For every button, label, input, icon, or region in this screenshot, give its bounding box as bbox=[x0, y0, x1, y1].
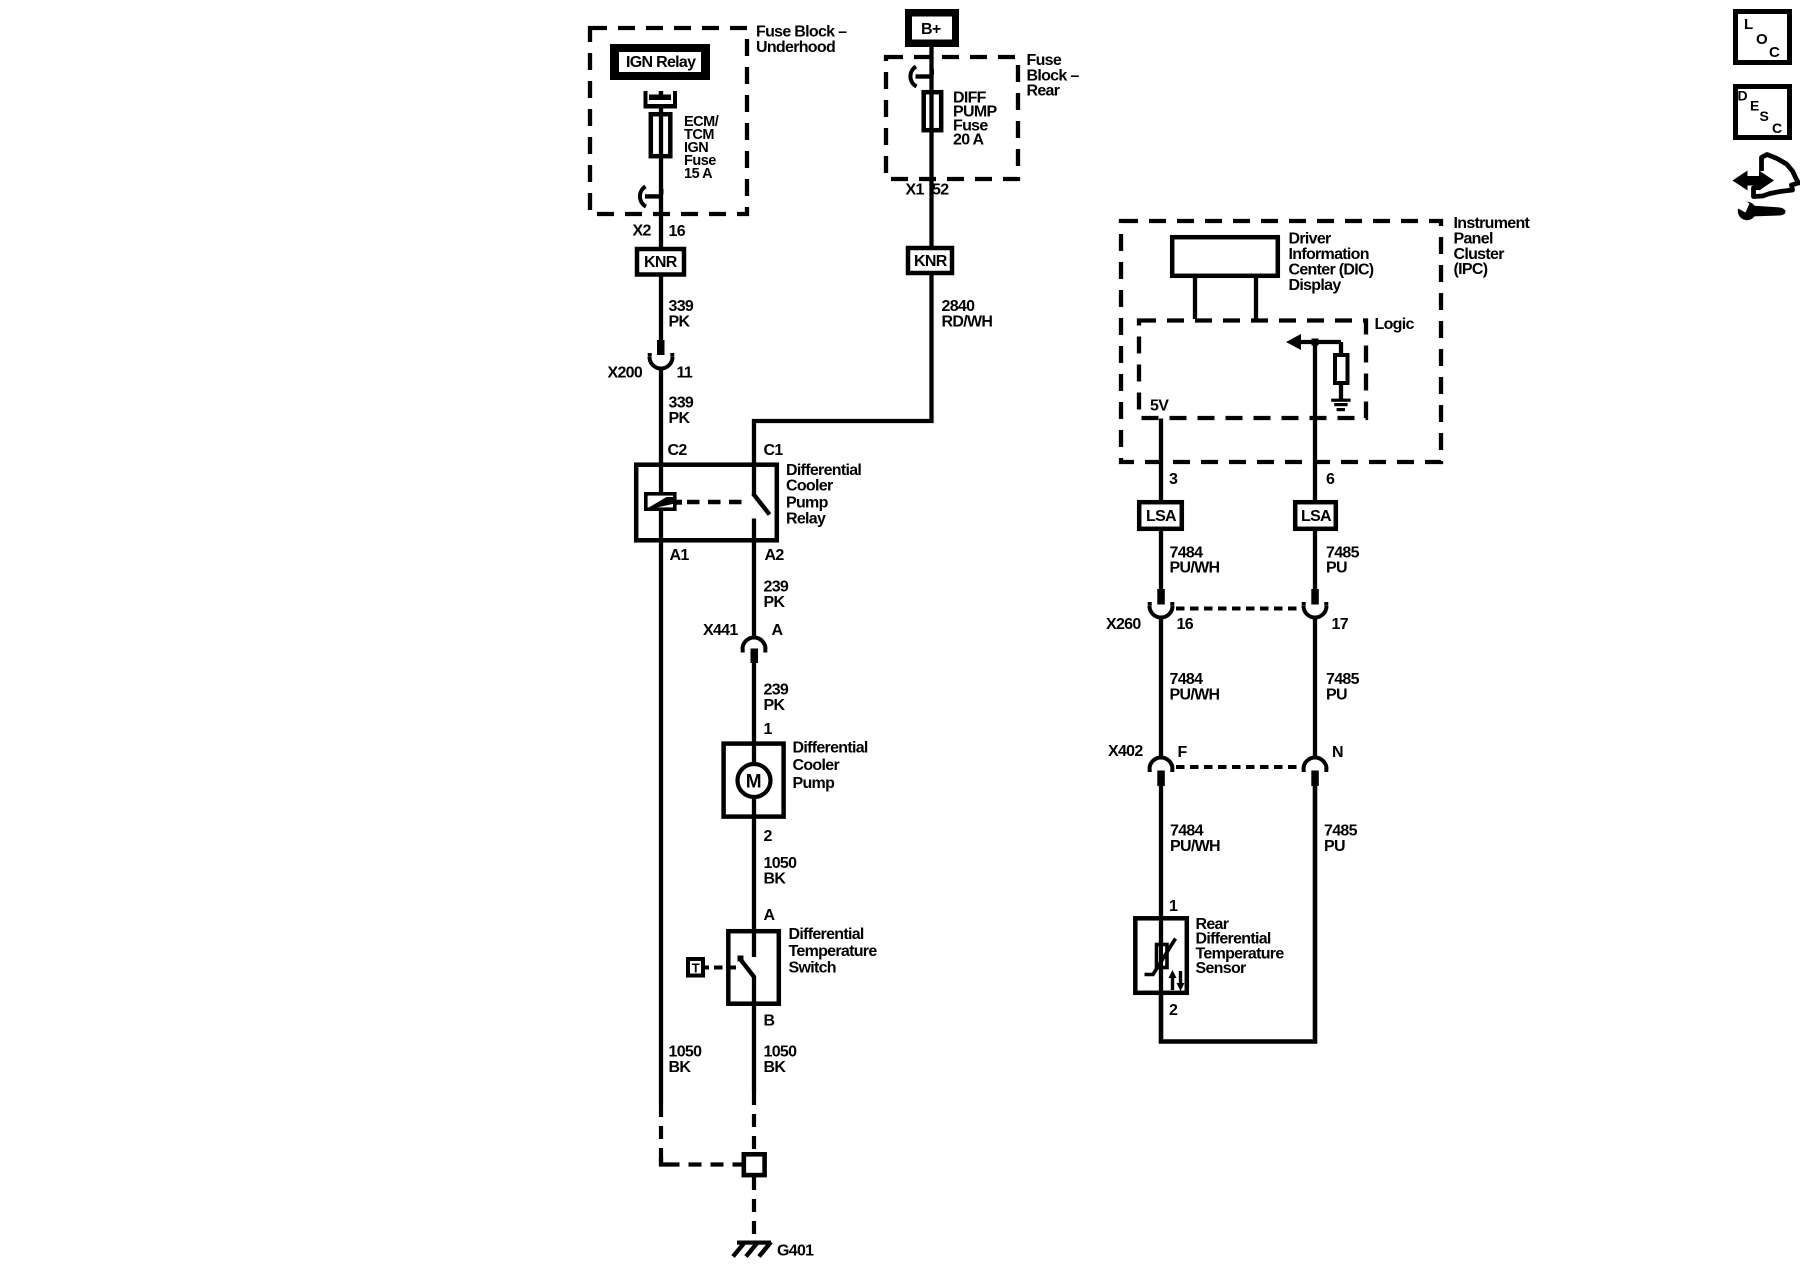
svg-text:D: D bbox=[1738, 88, 1748, 104]
fuse output terminal left bbox=[640, 187, 664, 207]
svg-text:Pump: Pump bbox=[793, 775, 836, 792]
svg-text:PU: PU bbox=[1326, 686, 1347, 703]
svg-text:A2: A2 bbox=[765, 547, 785, 564]
svg-text:1050: 1050 bbox=[764, 855, 798, 872]
svg-text:1: 1 bbox=[1169, 898, 1178, 915]
svg-text:Information: Information bbox=[1289, 246, 1369, 263]
svg-text:KNR: KNR bbox=[644, 254, 678, 271]
wire 1050 BK pump to switch bbox=[752, 819, 756, 931]
svg-text:F: F bbox=[1178, 744, 1188, 761]
wire 7485 PU upper bbox=[1313, 528, 1317, 590]
motor M bbox=[738, 764, 771, 797]
icon DESC box bbox=[1736, 87, 1790, 138]
switch contact arm bbox=[739, 958, 755, 978]
svg-text:E: E bbox=[1750, 98, 1759, 114]
svg-text:2: 2 bbox=[1169, 1002, 1178, 1019]
svg-text:16: 16 bbox=[669, 223, 686, 240]
svg-text:N: N bbox=[1332, 744, 1343, 761]
svg-text:Rear: Rear bbox=[1027, 83, 1060, 100]
svg-text:Differential: Differential bbox=[786, 462, 861, 479]
icon adjustable component bbox=[1733, 155, 1799, 221]
rear differential temperature sensor box bbox=[1135, 918, 1187, 993]
svg-text:G401: G401 bbox=[777, 1243, 814, 1260]
wire 7484 PU/WH mid bbox=[1159, 617, 1163, 758]
svg-text:Cooler: Cooler bbox=[786, 478, 833, 495]
svg-text:2: 2 bbox=[764, 828, 773, 845]
svg-text:Driver: Driver bbox=[1289, 231, 1332, 248]
wire 5V output bbox=[1159, 419, 1163, 503]
svg-text:17: 17 bbox=[1332, 616, 1349, 633]
svg-text:Logic: Logic bbox=[1375, 316, 1415, 333]
svg-text:239: 239 bbox=[764, 579, 789, 596]
differential temperature switch box bbox=[728, 931, 779, 1004]
instrument panel cluster dashed box bbox=[1121, 221, 1441, 462]
wire 239 PK to pump bbox=[752, 663, 756, 743]
wire 1050 BK to ground bbox=[752, 1006, 756, 1092]
svg-text:20 A: 20 A bbox=[953, 131, 985, 148]
svg-text:Cooler: Cooler bbox=[793, 757, 840, 774]
temperature actuator T bbox=[688, 959, 703, 976]
fuse block underhood dashed box bbox=[590, 28, 747, 214]
wire 7484 PU/WH lower bbox=[1159, 786, 1163, 918]
svg-text:1050: 1050 bbox=[764, 1044, 798, 1061]
svg-text:PU/WH: PU/WH bbox=[1170, 838, 1220, 855]
svg-text:C: C bbox=[1769, 44, 1780, 61]
svg-text:M: M bbox=[746, 772, 762, 793]
svg-text:IGN Relay: IGN Relay bbox=[626, 54, 696, 71]
logic arrow bbox=[1286, 334, 1301, 350]
svg-text:S: S bbox=[1760, 108, 1769, 124]
svg-text:X260: X260 bbox=[1106, 616, 1141, 633]
svg-text:16: 16 bbox=[1177, 616, 1194, 633]
wire 2840 RD/WH bbox=[754, 273, 932, 464]
thermistor symbol bbox=[1157, 945, 1168, 968]
differential cooler pump box bbox=[724, 744, 784, 817]
dashed ground wire left bbox=[661, 1104, 742, 1165]
IGN Relay label box bbox=[610, 44, 710, 80]
svg-text:15 A: 15 A bbox=[684, 166, 713, 182]
svg-text:C: C bbox=[1772, 120, 1782, 136]
svg-text:X1: X1 bbox=[906, 182, 925, 199]
fuse output terminal rear bbox=[910, 67, 934, 87]
svg-text:BK: BK bbox=[669, 1059, 692, 1076]
wire ign fuse feed bbox=[659, 108, 663, 247]
wire B+ feed bbox=[929, 47, 933, 248]
svg-text:X2: X2 bbox=[633, 223, 652, 240]
svg-text:1050: 1050 bbox=[669, 1044, 703, 1061]
relay socket terminal bbox=[644, 91, 678, 109]
svg-text:BK: BK bbox=[764, 1059, 787, 1076]
svg-text:O: O bbox=[1756, 31, 1768, 48]
relay dashed actuator link bbox=[677, 500, 683, 505]
wire 7484 PU/WH upper bbox=[1159, 528, 1163, 590]
svg-text:Fuse Block –: Fuse Block – bbox=[756, 24, 847, 41]
connector LSA left bbox=[1139, 502, 1182, 529]
svg-text:PU: PU bbox=[1324, 838, 1345, 855]
svg-text:Pump: Pump bbox=[786, 494, 829, 511]
svg-text:Temperature: Temperature bbox=[789, 943, 878, 960]
svg-text:2840: 2840 bbox=[942, 298, 976, 315]
svg-text:T: T bbox=[692, 961, 700, 976]
svg-text:11: 11 bbox=[677, 365, 693, 382]
fuse block rear dashed box bbox=[886, 57, 1018, 179]
svg-text:A: A bbox=[764, 907, 776, 924]
svg-text:3: 3 bbox=[1169, 471, 1178, 488]
svg-text:1: 1 bbox=[764, 721, 773, 738]
svg-text:PK: PK bbox=[669, 410, 691, 427]
svg-text:PK: PK bbox=[764, 594, 786, 611]
fuse DIFF PUMP 20A bbox=[924, 92, 942, 130]
ground G401 bbox=[733, 1241, 771, 1257]
relay switch contact bbox=[752, 462, 756, 495]
splice junction box bbox=[744, 1154, 765, 1175]
svg-text:C2: C2 bbox=[668, 442, 688, 459]
svg-text:LSA: LSA bbox=[1301, 508, 1332, 525]
svg-text:Relay: Relay bbox=[786, 510, 826, 527]
svg-text:X402: X402 bbox=[1108, 743, 1143, 760]
svg-text:Display: Display bbox=[1289, 277, 1342, 294]
junction node bbox=[1312, 339, 1319, 346]
svg-text:6: 6 bbox=[1326, 471, 1335, 488]
svg-text:339: 339 bbox=[669, 298, 694, 315]
relay coil bbox=[659, 462, 663, 494]
svg-text:Underhood: Underhood bbox=[756, 39, 835, 56]
svg-text:(IPC): (IPC) bbox=[1454, 261, 1488, 278]
fuse ECM/TCM IGN 15A bbox=[651, 114, 671, 156]
svg-text:52: 52 bbox=[932, 182, 949, 199]
svg-text:X200: X200 bbox=[608, 365, 643, 382]
svg-text:C1: C1 bbox=[764, 442, 784, 459]
svg-text:BK: BK bbox=[764, 871, 787, 888]
icon LOC box bbox=[1736, 12, 1790, 63]
svg-text:PU: PU bbox=[1326, 560, 1347, 577]
svg-text:339: 339 bbox=[669, 395, 694, 412]
logic ground bbox=[1331, 399, 1350, 412]
wire A1 to ground path bbox=[659, 540, 663, 1104]
logic dashed box bbox=[1139, 321, 1366, 419]
wire logic signal bbox=[1313, 342, 1317, 502]
dashed connector link X402 bbox=[1176, 765, 1301, 769]
svg-text:X441: X441 bbox=[703, 622, 738, 639]
dashed connector link X260 bbox=[1176, 607, 1302, 611]
svg-text:PU/WH: PU/WH bbox=[1170, 560, 1220, 577]
wire sensor return loop bbox=[1161, 786, 1315, 1042]
wire 339 PK lower bbox=[659, 368, 663, 464]
svg-text:B+: B+ bbox=[921, 21, 941, 38]
svg-text:Switch: Switch bbox=[789, 959, 836, 976]
svg-text:Sensor: Sensor bbox=[1196, 960, 1247, 977]
inline connector X200 pin 11 bbox=[650, 340, 673, 369]
svg-text:239: 239 bbox=[764, 682, 789, 699]
power node B+ bbox=[905, 9, 959, 47]
svg-text:KNR: KNR bbox=[914, 253, 948, 270]
svg-text:LSA: LSA bbox=[1146, 508, 1177, 525]
svg-text:PK: PK bbox=[764, 697, 786, 714]
svg-text:5V: 5V bbox=[1150, 398, 1169, 415]
wire 339 PK upper bbox=[659, 274, 663, 341]
DIC legs bbox=[1193, 276, 1197, 319]
sensor arrows bbox=[1169, 970, 1185, 991]
svg-text:L: L bbox=[1744, 16, 1753, 33]
DIC display box bbox=[1172, 237, 1278, 276]
svg-text:B: B bbox=[764, 1013, 775, 1030]
svg-text:PU/WH: PU/WH bbox=[1170, 686, 1220, 703]
svg-text:7485: 7485 bbox=[1324, 822, 1358, 839]
svg-text:Differential: Differential bbox=[793, 740, 868, 757]
svg-text:RD/WH: RD/WH bbox=[942, 314, 993, 331]
connector KNR left bbox=[637, 249, 684, 275]
resistor in logic bbox=[1339, 342, 1343, 355]
wire 239 PK from A2 bbox=[752, 540, 756, 638]
dashed wire to ground bbox=[752, 1177, 756, 1240]
wire 7485 PU mid bbox=[1313, 617, 1317, 758]
inline connector X260 pin 16 bbox=[1150, 589, 1173, 618]
svg-text:Differential: Differential bbox=[789, 926, 864, 943]
connector LSA right bbox=[1295, 502, 1336, 529]
svg-text:PK: PK bbox=[669, 314, 691, 331]
svg-text:Center (DIC): Center (DIC) bbox=[1289, 262, 1374, 279]
svg-text:A: A bbox=[772, 622, 784, 639]
svg-text:7484: 7484 bbox=[1170, 822, 1204, 839]
svg-text:A1: A1 bbox=[670, 547, 690, 564]
inline connector X260 pin 17 bbox=[1304, 589, 1327, 618]
differential cooler pump relay box bbox=[636, 465, 777, 541]
connector KNR right bbox=[908, 248, 952, 273]
